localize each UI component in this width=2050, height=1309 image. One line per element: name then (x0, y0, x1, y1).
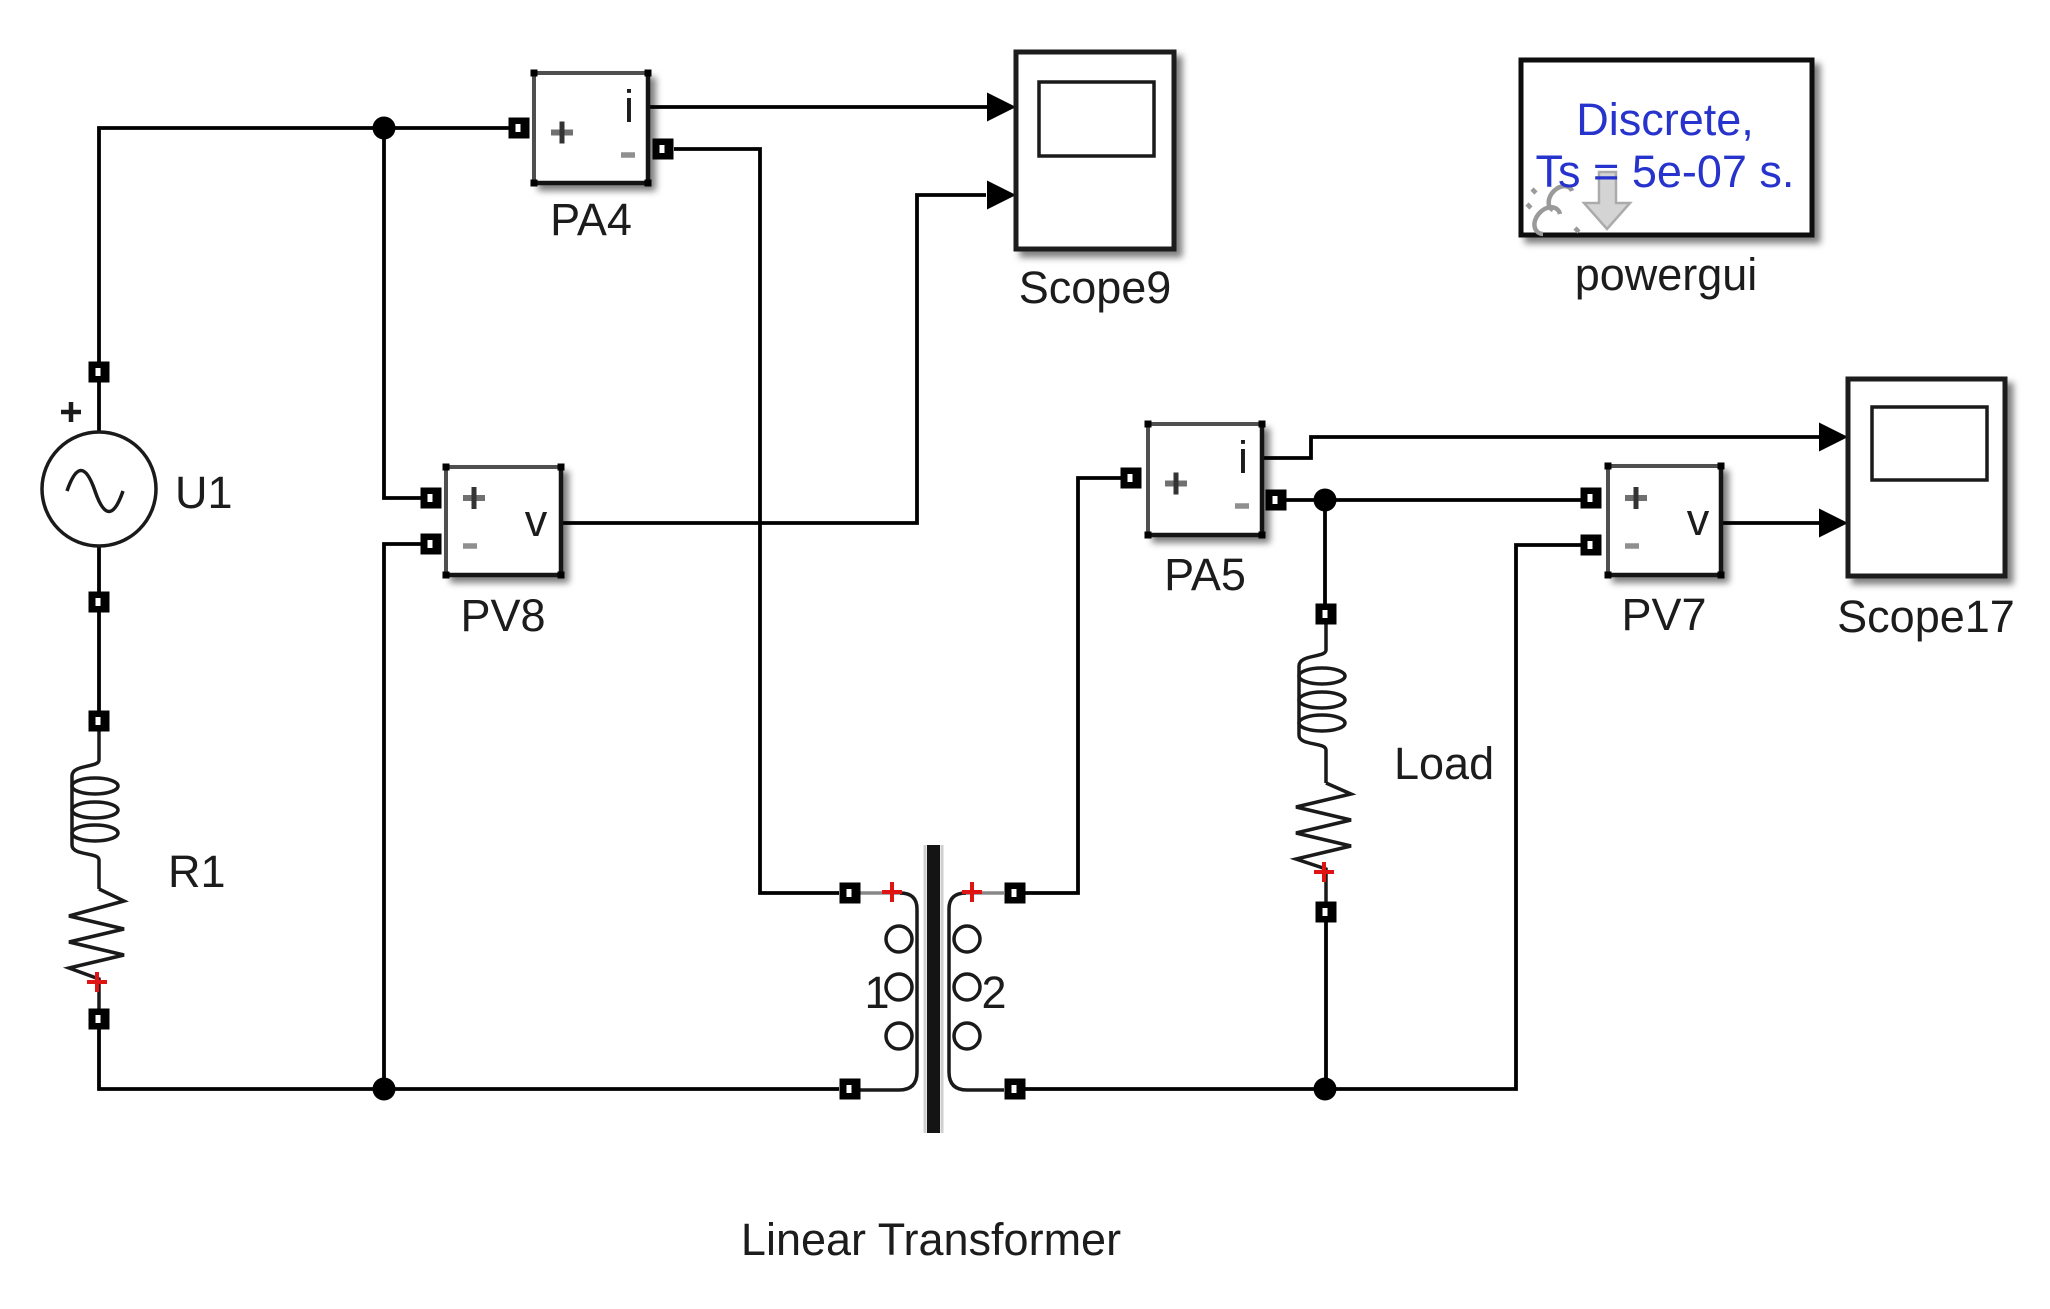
gray broken-link icon (1527, 186, 1579, 234)
port source top (89, 362, 110, 383)
current measurement PA4 (531, 70, 652, 187)
svg-text:i: i (1238, 432, 1248, 483)
wire source-top to PA4 input (99, 128, 509, 362)
port R1 top (89, 711, 110, 732)
svg-text:powergui: powergui (1575, 249, 1758, 300)
svg-text:PA4: PA4 (550, 194, 632, 245)
port source bottom (89, 592, 110, 613)
red polarity mark primary (882, 882, 902, 902)
svg-text:Ts = 5e-07 s.: Ts = 5e-07 s. (1536, 146, 1795, 197)
wire PV8 minus to bottom bus (384, 544, 421, 1089)
wire PV7 v output to Scope17 input2 (1721, 521, 1822, 525)
scope block Scope9 (1016, 52, 1174, 249)
voltage measurement PV7 (1605, 463, 1725, 579)
wire junction to Load top (1323, 500, 1327, 604)
wire R1 bottom to bus (99, 1029, 839, 1089)
wire PA4 minus to transformer primary plus (674, 149, 839, 893)
port transformer secondary minus (1005, 1079, 1026, 1100)
svg-text:Linear Transformer: Linear Transformer (741, 1214, 1121, 1265)
port PA5 minus output (1266, 490, 1287, 511)
svg-text:v: v (1687, 494, 1710, 545)
svg-text:Scope17: Scope17 (1837, 591, 2015, 642)
linear transformer T1 (860, 845, 1007, 1133)
voltage measurement PV8 (443, 464, 565, 579)
powergui block (1521, 60, 1812, 235)
arrow into Scope9 input1 (987, 93, 1016, 122)
current measurement PA5 (1145, 421, 1266, 539)
arrow into Scope9 input2 (987, 181, 1016, 210)
red polarity mark Load (1314, 862, 1334, 882)
port PV8 plus (421, 488, 442, 509)
svg-text:v: v (525, 495, 548, 546)
port transformer secondary plus (1005, 883, 1026, 904)
port transformer primary minus (840, 1079, 861, 1100)
wire Load bottom to bus and up to PV7 minus (1025, 545, 1581, 1089)
port Load top (1316, 604, 1337, 625)
port R1 bottom (89, 1009, 110, 1030)
primary winding 1 (860, 891, 902, 895)
junction node B (bottom left bus) (373, 1078, 396, 1101)
scope block Scope17 (1848, 379, 2005, 576)
port PA5 plus (1121, 468, 1142, 489)
PORTS (89, 118, 1602, 1100)
junction node A (top left) (373, 117, 396, 140)
svg-text:2: 2 (981, 967, 1006, 1018)
junction node C (PA5 minus net) (1314, 489, 1337, 512)
svg-text:U1: U1 (175, 467, 233, 518)
wire source top stub (97, 382, 101, 433)
wire PV8 v output to Scope9 input2 (561, 195, 986, 523)
svg-text:Scope9: Scope9 (1019, 262, 1172, 313)
Load RL branch (1296, 624, 1351, 902)
svg-text:PV8: PV8 (460, 590, 545, 641)
port Load bottom (1316, 902, 1337, 923)
AC voltage source U1 (42, 402, 156, 546)
gray download arrow (1584, 172, 1630, 229)
wire junction to PV8 plus (384, 128, 421, 498)
port PA4 input (509, 118, 530, 139)
wire transformer secondary plus to PA5 plus (1025, 478, 1121, 893)
wire PA4 i output to Scope9 input1 (648, 105, 990, 109)
wire source bottom stub (97, 545, 101, 592)
junction node D (secondary bottom bus) (1314, 1078, 1337, 1101)
wire PA5 minus to PV7 plus (1286, 498, 1581, 502)
wire PA5 i output to Scope17 input1 (1262, 437, 1822, 458)
resistor-inductor branch R1 (69, 731, 124, 1009)
svg-text:Discrete,: Discrete, (1576, 94, 1754, 145)
transformer core (924, 845, 927, 1133)
arrow into Scope17 input1 (1819, 423, 1848, 452)
svg-text:Load: Load (1394, 738, 1494, 789)
port PV8 minus (421, 534, 442, 555)
svg-text:1: 1 (864, 967, 889, 1018)
svg-text:i: i (624, 81, 634, 132)
port transformer primary plus (840, 883, 861, 904)
svg-text:PA5: PA5 (1164, 549, 1246, 600)
red polarity mark R1 (87, 972, 107, 992)
svg-text:R1: R1 (168, 846, 226, 897)
wire source-bottom to R1 top (97, 612, 101, 711)
port PA4 minus output (653, 139, 674, 160)
red polarity mark secondary (962, 882, 982, 902)
port PV7 plus (1581, 488, 1602, 509)
port PV7 minus (1581, 535, 1602, 556)
secondary winding 2 (964, 891, 1004, 895)
svg-text:PV7: PV7 (1621, 589, 1706, 640)
arrow into Scope17 input2 (1819, 509, 1848, 538)
